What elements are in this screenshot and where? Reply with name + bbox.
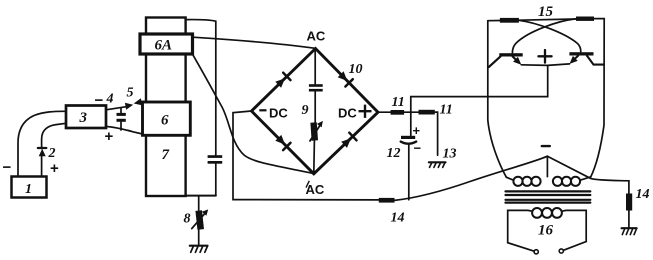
svg-text:11: 11 [440,103,453,118]
svg-text:11: 11 [392,95,405,110]
transistor left emitter arrow [513,57,517,61]
wire battery plus to diode 2 [41,156,43,177]
svg-text:4: 4 [106,92,114,107]
svg-text:8: 8 [184,212,191,227]
polarity + symbol (DC+ corner) [359,105,372,118]
primary winding right group [553,177,562,186]
primary winding left group [506,177,513,180]
svg-text:−: − [95,92,104,109]
svg-text:2: 2 [48,146,56,161]
diode 10 (top-right edge) [338,71,348,81]
diode (bottom-left edge) [275,135,285,145]
svg-text:AC: AC [306,182,325,197]
minus rail curving up to transformer tap [395,156,548,200]
envelope left: collector line to primary left end [488,21,507,178]
wire box3 upper to connector 5 [106,107,126,110]
wire to rheostat 8 [198,196,200,210]
diode 2 [42,123,66,148]
diode (bottom-right edge) [341,138,351,148]
box 6 [143,102,191,135]
transistor right collector slant [587,56,604,65]
varistor 9 body [310,122,318,140]
transistor left collector slant [489,56,501,67]
svg-text:+: + [105,128,114,145]
svg-text:DC: DC [338,105,357,120]
output terminal (right) [559,249,563,253]
bridge rectifier edges [252,49,379,174]
emitter plus bus [521,64,569,66]
fuse 11 (second) [419,110,435,115]
fuse box 6A [140,34,193,54]
capacitor 9 [309,84,323,87]
wire 6A to AC bottom [193,54,314,173]
output terminal (left) [534,250,538,254]
snubber line AC top to AC bottom [314,49,316,85]
minus dash above tap [542,145,550,147]
transformer 16: center tap [546,156,548,176]
transistor right base bar [569,52,593,55]
plus symbol (big, center of 15) [538,50,551,63]
secondary winding 16 [532,208,542,218]
svg-text:9: 9 [302,103,309,118]
wire -DC corner to minus rail [233,111,379,200]
svg-text:AC: AC [307,29,326,44]
polarity - dash (-DC corner) [259,109,266,111]
battery 1 [12,177,47,198]
svg-text:3: 3 [79,110,88,126]
connector 5 arrows [125,103,133,110]
ground 13 [429,161,446,163]
resistor (right, 15) [576,17,594,21]
svg-text:16: 16 [538,223,554,239]
svg-text:12: 12 [387,146,401,161]
wire unit top to vertical feed [186,20,216,156]
svg-text:−: − [414,141,422,156]
wire 6A to AC top [193,37,316,48]
resistor 14 [626,194,632,211]
svg-text:14: 14 [391,211,405,226]
secondary lead right to terminal [562,210,586,250]
diode (top-left edge) [275,78,285,88]
capacitor 12 [401,136,415,139]
svg-text:7: 7 [162,147,170,163]
ground (right 14) [622,227,637,229]
box 3 [66,106,106,129]
envelope right: collector line to primary right end [591,19,604,177]
svg-text:DC: DC [269,106,288,121]
capacitor 4 [120,108,122,113]
node: junction up to plus wire [411,66,548,113]
ground (unit 8) [190,245,208,247]
unit 7 tall body [146,18,186,197]
connector 14 on minus rail [379,198,395,203]
svg-text:6A: 6A [155,38,173,54]
svg-text:+: + [50,160,59,177]
transformer core [506,190,591,192]
svg-text:1: 1 [25,182,32,197]
stray tick on bottom AC label [306,181,309,188]
wire capacitor to bottom bar [215,164,217,196]
svg-text:10: 10 [349,62,363,77]
wire junction down to capacitor 12 [410,112,412,135]
svg-text:13: 13 [443,147,457,162]
multivibrator 15 top rail [488,20,500,22]
minus rail right arm to resistor 14 [547,156,629,193]
svg-text:−: − [3,159,12,176]
cross-coupling wire B [512,19,575,53]
bottom bar of unit [186,195,216,197]
DC+ output wire [378,111,391,113]
secondary lead left to terminal [508,210,535,251]
resistor (left, 15) [500,18,519,23]
svg-text:14: 14 [636,187,650,202]
transistor right emitter arrow [574,56,578,60]
wire box3 lower to box 6 [106,126,143,134]
fuse 11 (first) [391,110,405,115]
svg-text:+: + [413,123,421,138]
cross-coupling wire A [519,20,581,52]
svg-text:6: 6 [161,113,169,129]
rheostat 8 [195,210,204,230]
capacitor on feed line [208,155,223,158]
svg-text:5: 5 [127,86,134,101]
wire battery minus to box 3 [18,111,66,176]
transistor left base bar [499,53,522,56]
svg-text:15: 15 [538,4,554,20]
